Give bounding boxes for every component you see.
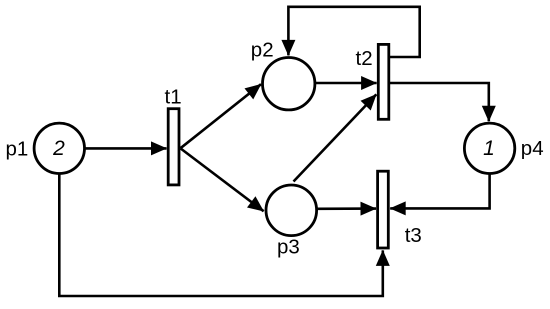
transition t1	[168, 109, 179, 185]
svg-text:p1: p1	[6, 138, 29, 161]
svg-text:1: 1	[483, 137, 495, 160]
wire t2 to p2 loop	[288, 7, 419, 57]
svg-text:t1: t1	[165, 86, 182, 109]
wire p3 to t3	[317, 207, 377, 210]
transition t2	[378, 44, 389, 119]
transition t3	[378, 171, 389, 248]
wire t1 to p3	[181, 148, 264, 211]
wire p2 to t2	[316, 82, 377, 85]
wire t2 to p4	[390, 83, 489, 121]
svg-text:p2: p2	[251, 39, 274, 62]
svg-text:p3: p3	[277, 236, 300, 259]
svg-text:p4: p4	[521, 137, 544, 160]
wire t1 to p2	[181, 84, 262, 148]
svg-text:2: 2	[52, 137, 65, 160]
wire p4 to t3	[390, 174, 489, 208]
place p3	[266, 185, 317, 236]
wire p1 to t3 bottom loop	[59, 174, 383, 296]
svg-text:t2: t2	[356, 47, 373, 70]
wire p1 to t1	[86, 147, 167, 150]
svg-text:t3: t3	[405, 224, 422, 247]
place p4	[464, 123, 514, 173]
place p2	[263, 57, 315, 109]
wire p3 to t2	[294, 94, 377, 181]
place p1	[34, 123, 84, 173]
